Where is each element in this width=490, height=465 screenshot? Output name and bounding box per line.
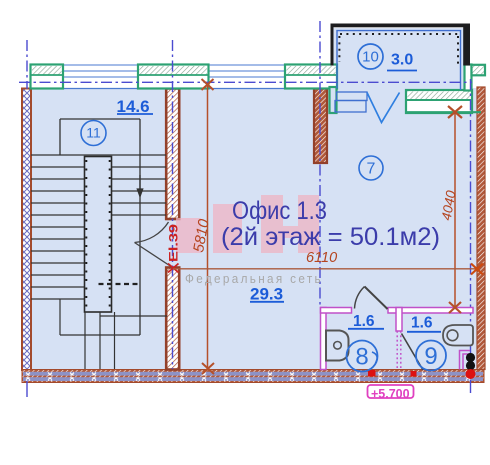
- window W3 corner jamb: [330, 87, 337, 113]
- sink room 8 drain: [334, 342, 342, 350]
- svg-text:1.6: 1.6: [353, 313, 375, 330]
- balcony inner blue line: [337, 31, 461, 90]
- elevation marker box +5.700: [368, 385, 414, 401]
- axis x=27 bottom stub: [26, 381, 28, 397]
- axis horizontal y=82: [19, 81, 472, 83]
- watermark pink letter n: [261, 195, 319, 253]
- room label 8: [347, 341, 378, 372]
- bathroom top wall piece B: [388, 308, 473, 314]
- dim text 29.3: [250, 285, 284, 304]
- door room 9 leaf: [402, 334, 424, 371]
- svg-text:(2й этаж = 50.1м2): (2й этаж = 50.1м2): [221, 223, 440, 251]
- window W4 below balcony: [406, 90, 481, 113]
- bathroom wall left of room 8: [321, 308, 327, 370]
- duct corner room 9: [460, 351, 471, 370]
- svg-text:10: 10: [362, 49, 379, 66]
- window W3: [285, 65, 337, 89]
- room label 9: [416, 341, 446, 371]
- svg-text:8: 8: [355, 344, 368, 371]
- svg-text:3.0: 3.0: [391, 52, 413, 69]
- axis vertical x=320: [319, 21, 321, 308]
- svg-text:Офис 1.3: Офис 1.3: [232, 197, 327, 225]
- balcony frame black right: [463, 24, 470, 66]
- watermark pink letter a1: [176, 218, 201, 253]
- room label 11: [81, 121, 106, 146]
- X mark top of 4040: [448, 106, 462, 118]
- bathroom top wall piece A: [321, 308, 352, 314]
- right exterior wall: [477, 87, 485, 370]
- dim text 3.0: [387, 52, 417, 71]
- svg-text:11: 11: [86, 125, 101, 141]
- balcony floor fill: [332, 28, 468, 90]
- shaft double dots: [466, 353, 475, 362]
- axis x=470.5 bottom stub: [470, 380, 472, 393]
- balcony frame black left: [331, 24, 334, 66]
- red square marker 2: [411, 371, 417, 377]
- svg-text:7: 7: [367, 161, 376, 178]
- stair-office wall lower: [166, 268, 179, 370]
- window W5 right corner piece: [465, 65, 472, 91]
- X mark bottom of 5810: [202, 363, 214, 374]
- stair left flight treads: [31, 155, 166, 299]
- door room 8 leaf: [365, 287, 388, 310]
- watermark pink letter a2: [213, 204, 242, 253]
- window band line 3: [30, 76, 337, 78]
- left exterior wall: [22, 89, 31, 371]
- bottom wall blue band lower: [23, 377, 483, 381]
- window W2: [138, 65, 209, 89]
- stair bottom landing lines: [60, 299, 167, 369]
- window band line top: [30, 64, 337, 66]
- svg-text:1.6: 1.6: [411, 315, 433, 332]
- stair right boundary line: [139, 119, 141, 335]
- radiator by balcony door: [335, 92, 367, 112]
- partition dotted lower: [397, 331, 401, 370]
- dim text 1.6 room8: [348, 313, 384, 330]
- sink room 9 drain: [447, 330, 458, 341]
- understair dashed partition: [99, 283, 142, 285]
- balcony door swing V: [367, 93, 400, 123]
- room label 10: [358, 44, 383, 69]
- svg-text:9: 9: [424, 343, 437, 370]
- sink room 9: [443, 325, 473, 346]
- dimension line 4040 vertical: [454, 112, 456, 308]
- red square marker 1: [368, 370, 376, 377]
- svg-text:Федеральная сеть: Федеральная сеть: [185, 272, 323, 286]
- stringer tick marks: [86, 160, 109, 310]
- stair central stringer: [85, 157, 112, 313]
- balcony frame black top: [331, 24, 471, 28]
- X mark right of 6110: [471, 264, 483, 275]
- interior floor fill: [29, 88, 478, 370]
- dimension line 6110 horizontal: [173, 268, 477, 270]
- dimension line 5810 vertical: [207, 85, 209, 368]
- bottom exterior wall: [22, 370, 484, 383]
- stair right flight treads: [112, 167, 166, 215]
- stair door leaf: [135, 243, 172, 267]
- door room 8 arc: [355, 287, 365, 309]
- partition between 8 and 9 solid: [396, 308, 402, 332]
- window W5 sill sliver to right edge: [472, 65, 486, 76]
- axis vertical x=27: [26, 40, 28, 89]
- balcony insulation dashes: [339, 34, 459, 64]
- bottom wall blue band upper: [23, 372, 483, 376]
- svg-text:6110: 6110: [306, 250, 337, 266]
- sink room 8: [326, 331, 349, 361]
- axis vertical x=470.5: [470, 79, 472, 380]
- room label 7: [359, 156, 383, 180]
- stair room11 box left line: [59, 119, 61, 155]
- dim text 1.6 room9: [407, 315, 441, 332]
- stair-office wall upper: [166, 89, 179, 220]
- X mark bottom of 4040: [449, 302, 461, 313]
- svg-text:El.39: El.39: [167, 224, 181, 262]
- svg-text:29.3: 29.3: [250, 285, 283, 304]
- window band bottom line: [30, 88, 337, 90]
- svg-text:+5.700: +5.700: [371, 387, 410, 401]
- X mark top of 5810: [202, 79, 214, 90]
- window W1: [31, 65, 64, 89]
- red round marker 3: [466, 369, 476, 379]
- dim text 14.6: [117, 97, 154, 116]
- stair down arrow: [137, 175, 142, 197]
- stair room11 box top line: [60, 118, 140, 120]
- short wall left of balcony door: [314, 89, 327, 164]
- window band line 2: [30, 70, 337, 72]
- axis vertical x=172: [172, 40, 174, 369]
- red X mark at stair door: [168, 264, 179, 273]
- stair door arc: [135, 222, 169, 243]
